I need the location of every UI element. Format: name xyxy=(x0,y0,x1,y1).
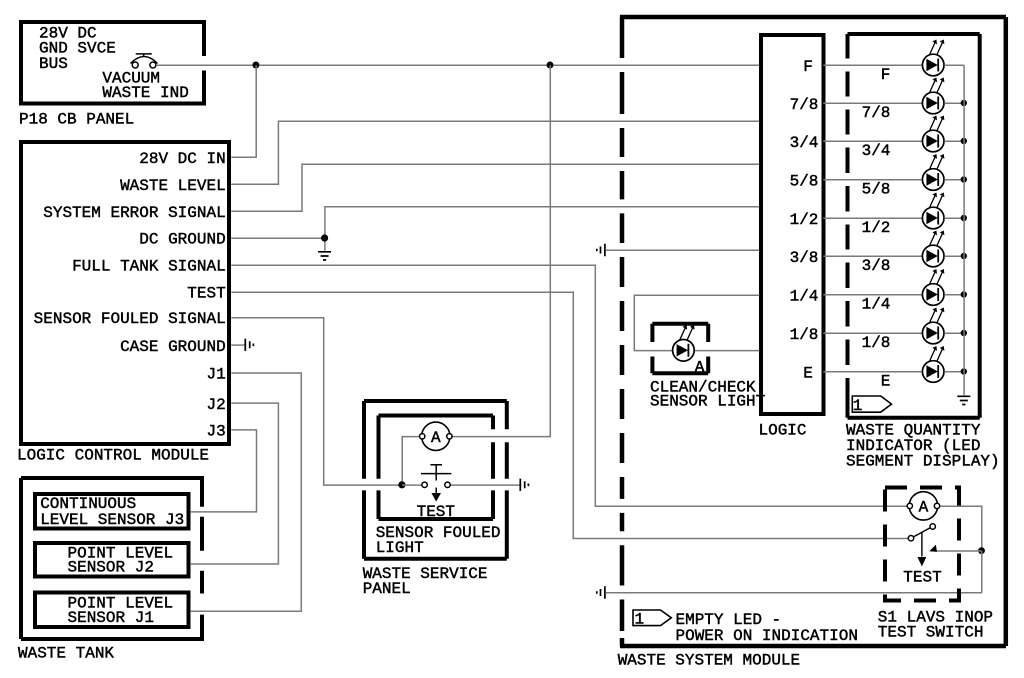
box logic control module xyxy=(21,142,229,444)
wire LED 3/4 to ground bus xyxy=(944,140,964,142)
wire WASTE LEVEL to logic xyxy=(231,121,759,184)
box waste quantity indicator xyxy=(848,32,980,36)
earth ground LED bus xyxy=(957,396,970,404)
wire logic 5/8 output to LED xyxy=(823,179,922,181)
svg-text:J3: J3 xyxy=(206,423,225,441)
flag 1 indicator xyxy=(852,396,891,412)
junction S1 right bus xyxy=(978,547,985,554)
box waste tank xyxy=(21,476,202,480)
LED 1/2 xyxy=(922,193,944,229)
chassis ground service panel xyxy=(520,479,528,491)
wire S1 lamp to right bus xyxy=(940,506,981,551)
svg-text:TEST: TEST xyxy=(417,503,455,521)
earth ground DC xyxy=(318,252,331,260)
wire LED 1/4 to ground bus xyxy=(944,294,964,296)
svg-text:1: 1 xyxy=(634,611,644,629)
svg-text:WASTE TANK: WASTE TANK xyxy=(18,644,114,662)
junction DC ground xyxy=(321,234,328,241)
wire logic 3/4 output to LED xyxy=(823,140,922,142)
pushbutton test switch service panel xyxy=(421,465,451,502)
wire J1 to point level sensor J1 xyxy=(191,373,301,611)
wire LED E to ground bus xyxy=(944,371,964,373)
svg-text:P18 CB PANEL: P18 CB PANEL xyxy=(19,110,134,128)
junction LED E bus xyxy=(961,368,967,374)
box clean/check sensor light xyxy=(652,322,708,326)
wire SENSOR FOULED SIGNAL to service panel xyxy=(231,318,398,485)
wire LED 3/8 to ground bus xyxy=(944,255,964,257)
box S1 test switch dashed xyxy=(885,488,959,601)
junction LED 1/2 bus xyxy=(961,215,967,221)
svg-text:E: E xyxy=(881,373,891,391)
wire logic 1/4 output to LED xyxy=(823,294,922,296)
svg-text:3/8: 3/8 xyxy=(790,249,819,267)
svg-text:J1: J1 xyxy=(206,366,225,384)
svg-text:3/4: 3/4 xyxy=(790,134,819,152)
wire bus down to sensor fouled light xyxy=(450,65,550,436)
junction LED 3/4 bus xyxy=(961,138,967,144)
wire LED F to ground bus xyxy=(944,64,964,66)
svg-text:1/4: 1/4 xyxy=(862,296,891,314)
svg-text:1/8: 1/8 xyxy=(790,326,819,344)
svg-text:SENSOR FOULED SIGNAL: SENSOR FOULED SIGNAL xyxy=(34,310,226,328)
LED 1/8 xyxy=(922,308,944,344)
svg-text:SEGMENT DISPLAY): SEGMENT DISPLAY) xyxy=(846,452,1000,470)
svg-text:1/8: 1/8 xyxy=(862,334,891,352)
wire logic 7/8 output to LED xyxy=(823,102,922,104)
wire logic F output to LED xyxy=(823,64,922,66)
svg-text:LIGHT: LIGHT xyxy=(376,539,424,557)
box continuous level sensor J3 xyxy=(35,494,189,529)
LED 3/8 xyxy=(922,231,944,267)
svg-text:1/2: 1/2 xyxy=(862,219,891,237)
lamp sensor fouled light A xyxy=(420,422,453,450)
LED 7/8 xyxy=(922,78,944,114)
svg-text:5/8: 5/8 xyxy=(790,172,819,190)
svg-text:SENSOR LIGHT: SENSOR LIGHT xyxy=(650,392,765,410)
module left edge dashed xyxy=(620,17,625,646)
wire logic 1/2 output to LED xyxy=(823,217,922,219)
wire J3 to continuous level sensor J3 xyxy=(191,430,257,512)
junction LED 1/8 bus xyxy=(961,330,967,336)
svg-text:E: E xyxy=(803,364,813,382)
svg-text:WASTE LEVEL: WASTE LEVEL xyxy=(120,177,226,195)
wire lamp to junction xyxy=(402,437,422,486)
wire junction to switch fixed contact xyxy=(937,550,982,552)
svg-text:TEST: TEST xyxy=(187,285,225,303)
wire LED 1/8 to ground bus xyxy=(944,332,964,334)
svg-text:LEVEL SENSOR J3: LEVEL SENSOR J3 xyxy=(40,511,184,529)
svg-text:PANEL: PANEL xyxy=(363,580,411,598)
svg-text:POWER ON INDICATION: POWER ON INDICATION xyxy=(676,627,858,645)
junction LED 1/4 bus xyxy=(961,291,967,297)
svg-text:28V DC IN: 28V DC IN xyxy=(139,150,225,168)
wire TEST to S1 switch xyxy=(231,292,908,538)
svg-text:WASTE IND: WASTE IND xyxy=(102,84,188,102)
svg-text:7/8: 7/8 xyxy=(862,104,891,122)
svg-text:A: A xyxy=(695,359,705,377)
junction bus to service panel lamp xyxy=(547,62,554,69)
lamp S1 A xyxy=(907,492,940,520)
box sensor fouled light inner xyxy=(379,414,494,418)
svg-text:1/2: 1/2 xyxy=(790,211,819,229)
junction bus to 28V DC IN xyxy=(252,62,259,69)
wire LED 5/8 to ground bus xyxy=(944,179,964,181)
svg-text:J2: J2 xyxy=(206,396,225,414)
LED F xyxy=(922,40,944,76)
LED clean/check xyxy=(673,325,695,361)
box point level sensor J2 xyxy=(35,543,189,577)
svg-text:1/4: 1/4 xyxy=(790,287,819,305)
svg-text:5/8: 5/8 xyxy=(862,181,891,199)
wire LED ground bus xyxy=(963,65,965,395)
wire LED 1/2 to ground bus xyxy=(944,217,964,219)
svg-text:TEST: TEST xyxy=(903,569,941,587)
wire 28V DC bus from breaker to logic module xyxy=(156,64,759,66)
svg-text:SENSOR J1: SENSOR J1 xyxy=(68,609,154,627)
wire switch to chassis ground xyxy=(451,484,521,486)
wire DC GROUND xyxy=(231,207,759,251)
circuit breaker VACUUM WASTE IND xyxy=(131,54,158,68)
waste tank right edge with gaps xyxy=(200,476,204,641)
svg-text:F: F xyxy=(881,66,891,84)
wire SYSTEM ERROR SIGNAL to logic xyxy=(231,164,759,211)
box P18 CB panel xyxy=(21,22,204,104)
box waste system module xyxy=(620,15,1006,20)
svg-text:3/8: 3/8 xyxy=(862,257,891,275)
LED 3/4 xyxy=(922,116,944,152)
svg-text:WASTE SYSTEM MODULE: WASTE SYSTEM MODULE xyxy=(618,652,800,670)
wire logic to clean/check LED loop xyxy=(634,295,759,350)
svg-text:CASE GROUND: CASE GROUND xyxy=(120,338,226,356)
chassis ground case xyxy=(245,339,253,351)
svg-text:FULL TANK SIGNAL: FULL TANK SIGNAL xyxy=(72,258,226,276)
box waste service panel outer xyxy=(364,399,507,403)
wire LED 7/8 to ground bus xyxy=(944,102,964,104)
wire bus down to 28V DC IN pin xyxy=(231,65,256,157)
switch S1 momentary xyxy=(908,524,937,567)
svg-text:TEST SWITCH: TEST SWITCH xyxy=(878,623,984,641)
LED E xyxy=(922,346,944,382)
svg-text:SYSTEM ERROR SIGNAL: SYSTEM ERROR SIGNAL xyxy=(43,204,225,222)
wire logic E output to LED xyxy=(823,371,922,373)
flag 1 empty LED note xyxy=(633,610,671,626)
svg-text:BUS: BUS xyxy=(39,55,68,73)
junction LED 5/8 bus xyxy=(961,176,967,182)
svg-text:SENSOR J2: SENSOR J2 xyxy=(68,559,154,577)
svg-text:LOGIC CONTROL MODULE: LOGIC CONTROL MODULE xyxy=(17,447,209,465)
junction sensor fouled xyxy=(398,481,405,488)
indicator left edge dashed xyxy=(846,34,850,418)
wire FULL TANK SIGNAL to S1 lamp xyxy=(231,265,907,506)
wire J2 to point level sensor J2 xyxy=(191,403,279,564)
svg-text:3/4: 3/4 xyxy=(862,142,891,160)
wire logic 3/8 output to LED xyxy=(823,255,922,257)
box logic xyxy=(761,35,824,414)
junction LED 7/8 bus xyxy=(961,100,967,106)
wire junction to switch contact xyxy=(402,484,422,486)
chassis ground S1 return xyxy=(597,586,605,598)
svg-text:CONTINUOUS: CONTINUOUS xyxy=(40,495,136,513)
LED 5/8 xyxy=(922,154,944,190)
junction LED 3/8 bus xyxy=(961,253,967,259)
wire CASE GROUND stub xyxy=(231,344,245,346)
LED 1/4 xyxy=(922,269,944,305)
svg-text:LOGIC: LOGIC xyxy=(759,422,807,440)
box point level sensor J1 xyxy=(35,593,189,628)
chassis ground into logic (3/8 input) xyxy=(597,244,605,256)
svg-text:DC GROUND: DC GROUND xyxy=(139,231,225,249)
svg-text:7/8: 7/8 xyxy=(790,96,819,114)
wire logic 1/8 output to LED xyxy=(823,332,922,334)
svg-text:F: F xyxy=(803,58,813,76)
svg-text:1: 1 xyxy=(853,397,863,415)
